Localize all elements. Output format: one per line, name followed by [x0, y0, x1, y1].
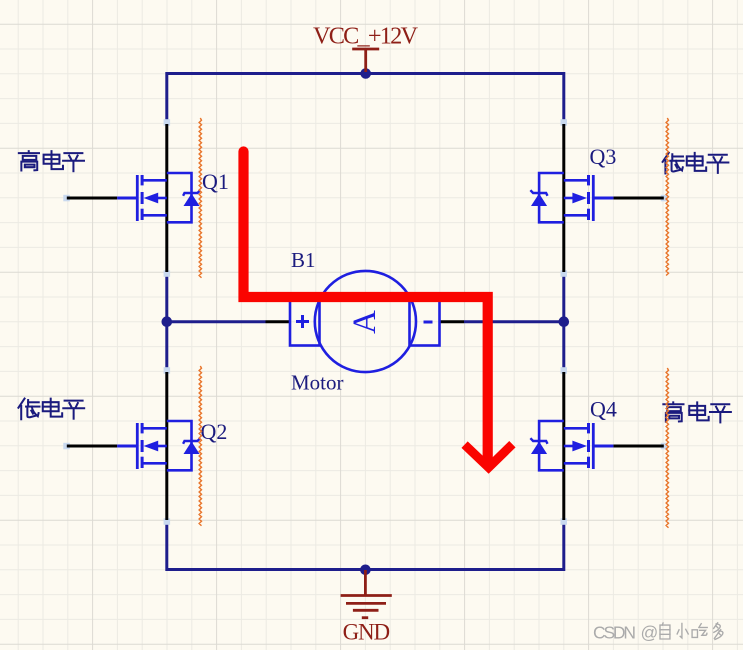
wire left rail lower — [165, 521, 168, 572]
svg-text:B1: B1 — [291, 248, 316, 272]
motor B1 left terminal box — [290, 300, 320, 346]
error squiggle right bottom — [666, 368, 668, 528]
wire left rail upper — [165, 72, 168, 123]
net label low-level right (di dian ping) — [663, 153, 729, 174]
junction left mid — [162, 316, 173, 327]
wire left rail mid — [165, 273, 168, 371]
transistor Q3 — [530, 119, 667, 277]
motor minus sign — [424, 321, 433, 324]
svg-text:CSDN: CSDN — [593, 622, 636, 642]
power symbol VCC bar — [352, 49, 379, 72]
svg-text:VCC_+12V: VCC_+12V — [313, 23, 418, 50]
error squiggle left bottom — [199, 366, 201, 526]
net label low-level left (di dian ping) — [18, 399, 84, 420]
svg-text:Motor: Motor — [291, 371, 344, 395]
wire right rail lower — [562, 521, 565, 572]
wire top rail — [167, 72, 564, 75]
ground symbol GND — [341, 570, 392, 618]
junction GND — [360, 565, 371, 576]
junction VCC — [360, 68, 371, 79]
net label high-level right (gao dian ping) — [663, 402, 731, 422]
junction right mid — [559, 316, 570, 327]
current flow arrow — [244, 152, 513, 468]
net label high-level left (gao dian ping) — [19, 151, 84, 171]
wire motor right — [464, 320, 564, 323]
svg-text:@: @ — [641, 622, 659, 642]
error squiggle right top — [666, 118, 668, 276]
error squiggle left top — [199, 118, 201, 278]
svg-text:GND: GND — [343, 620, 391, 645]
svg-text:Q1: Q1 — [202, 169, 229, 194]
wire motor left — [167, 320, 266, 323]
transistor Q2 — [63, 367, 200, 525]
transistor Q4 — [530, 367, 667, 525]
svg-text:Q4: Q4 — [590, 397, 617, 422]
motor B1 right terminal box — [410, 300, 440, 346]
transistor Q1 — [63, 119, 200, 277]
wire bottom rail — [167, 568, 564, 571]
svg-text:A: A — [347, 310, 383, 334]
svg-text:Q3: Q3 — [590, 144, 617, 169]
wire right rail mid — [562, 273, 565, 371]
svg-text:Q2: Q2 — [201, 419, 228, 444]
wire right rail upper — [562, 72, 565, 123]
motor plus sign — [296, 315, 309, 328]
pin motor left — [266, 320, 291, 323]
pin motor right — [440, 320, 465, 323]
motor B1 circle — [315, 271, 416, 372]
